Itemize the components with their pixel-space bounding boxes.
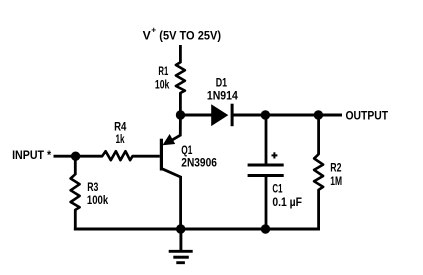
svg-text:V: V xyxy=(143,29,151,42)
svg-text:OUTPUT: OUTPUT xyxy=(346,110,389,123)
svg-text:100k: 100k xyxy=(87,194,109,207)
svg-text:R2: R2 xyxy=(330,162,341,175)
wire node C to R2 xyxy=(317,115,320,155)
R4 labels xyxy=(114,120,127,146)
wire R4 to Q1 base xyxy=(133,155,160,158)
Q1 labels xyxy=(181,144,217,170)
node E junction dot (collector/ground) xyxy=(176,224,185,233)
ground xyxy=(169,229,193,263)
transistor Q1 base bar xyxy=(160,139,163,171)
wire R1 to node A xyxy=(179,93,182,115)
transistor Q1 collector wire xyxy=(161,168,181,229)
resistor R3 xyxy=(71,174,80,210)
capacitor C1 polarity plus xyxy=(272,152,278,158)
C1 labels xyxy=(272,183,302,210)
svg-text:Q1: Q1 xyxy=(181,144,192,157)
transistor Q1 emitter wire with arrow xyxy=(163,118,181,145)
wire diode to output xyxy=(232,114,342,117)
node C junction dot (R2 top) xyxy=(314,110,323,119)
bottom ground rail wire xyxy=(74,228,320,231)
R2 labels xyxy=(330,162,342,189)
svg-text:1M: 1M xyxy=(330,175,342,188)
svg-text:1N914: 1N914 xyxy=(207,90,238,103)
node F junction dot (C1 bottom) xyxy=(261,224,270,233)
svg-text:1k: 1k xyxy=(116,133,125,146)
svg-text:INPUT *: INPUT * xyxy=(12,149,51,162)
resistor R2 xyxy=(314,154,323,190)
svg-text:(5V TO 25V): (5V TO 25V) xyxy=(159,29,221,42)
svg-text:R4: R4 xyxy=(114,120,127,133)
svg-text:+: + xyxy=(151,25,156,35)
svg-text:R1: R1 xyxy=(158,65,168,78)
node B junction dot (C1 top) xyxy=(261,110,270,119)
svg-text:D1: D1 xyxy=(216,76,228,89)
svg-text:10k: 10k xyxy=(155,78,170,91)
svg-text:0.1 µF: 0.1 µF xyxy=(272,196,302,209)
svg-text:C1: C1 xyxy=(272,183,282,196)
node D junction dot (input/R4/R3) xyxy=(71,152,80,161)
wire R2 to bottom rail xyxy=(317,190,319,229)
D1 labels xyxy=(207,76,238,102)
wire input to node D xyxy=(54,155,103,158)
capacitor C1 xyxy=(248,165,284,176)
node V+ supply label xyxy=(143,25,221,43)
wire R3 from node D xyxy=(74,156,77,174)
wire node A to diode xyxy=(181,114,213,117)
svg-text:2N3906: 2N3906 xyxy=(181,157,217,170)
diode D1 xyxy=(211,104,232,127)
node A junction dot (R1/D1/emitter) xyxy=(176,110,185,119)
R1 value labels xyxy=(155,65,170,92)
wire C1 to bottom rail xyxy=(265,176,268,230)
wire R3 to bottom rail xyxy=(75,210,77,229)
svg-text:R3: R3 xyxy=(87,181,99,194)
R3 labels xyxy=(87,181,109,207)
wire V+ to R1 xyxy=(179,45,182,63)
wire node B to C1 xyxy=(265,115,268,165)
resistor R4 xyxy=(102,151,132,160)
resistor R1 xyxy=(176,62,185,93)
